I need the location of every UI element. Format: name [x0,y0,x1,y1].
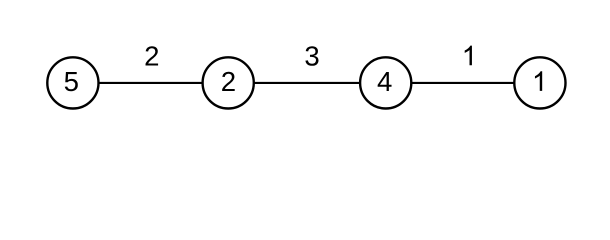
svg-text:4: 4 [377,66,392,97]
svg-text:3: 3 [304,40,319,71]
svg-text:2: 2 [221,66,236,97]
edge weight label 1 [465,46,472,66]
node 5 [47,57,98,108]
node 2 [203,57,254,108]
node 1 [514,57,565,108]
node 4 [360,57,411,108]
wire edge 2-4 [228,82,386,84]
wire edge 4-1 [386,82,540,84]
svg-text:5: 5 [64,66,79,97]
svg-text:2: 2 [144,40,159,71]
wire edge 5-2 [73,82,228,84]
